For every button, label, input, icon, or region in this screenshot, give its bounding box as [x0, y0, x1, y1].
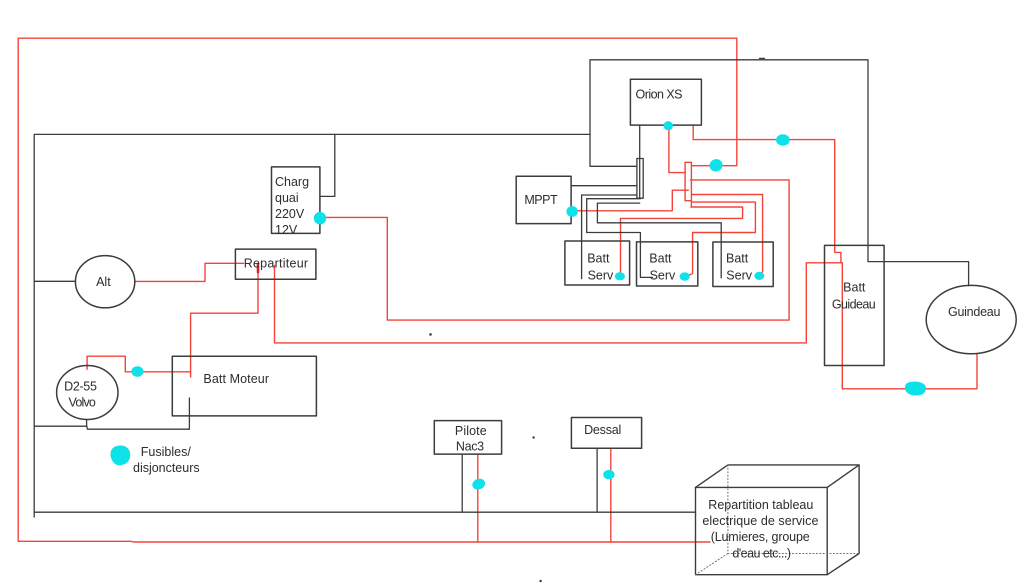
wire red ladder to Batt Serv 1	[621, 207, 743, 273]
svg-text:Fusibles/: Fusibles/	[141, 445, 192, 459]
wire red MPPT to ladder	[572, 190, 688, 211]
wire black MPPT negative	[571, 185, 637, 187]
fuse dot Pilote	[471, 477, 487, 491]
fuse dot MPPT	[566, 206, 577, 217]
wire red ladder to Batt Serv 2	[687, 202, 756, 276]
box Batt Serv 1	[565, 241, 630, 285]
wire red Dessal to bus	[610, 448, 612, 542]
stray mark 1	[429, 333, 432, 336]
box 3D Repartition tableau front face	[696, 487, 828, 574]
wire black Batt Serv 2 negative	[587, 199, 653, 278]
wire black Pilote Nac3 to bus	[461, 454, 463, 512]
wire black Batt Serv 3 negative	[597, 203, 721, 278]
wire black Orion XS negative	[639, 125, 641, 198]
box Repartiteur	[235, 249, 316, 279]
wire red Pilote Nac3 to bus	[477, 454, 479, 542]
box Charg quai	[272, 167, 320, 234]
wire black to Guindeau (top route)	[590, 60, 969, 286]
wire red D2-55 to Batt Moteur junction	[87, 356, 191, 372]
svg-text:Serv: Serv	[588, 268, 614, 282]
svg-text:D2-55: D2-55	[64, 380, 97, 394]
svg-text:Batt: Batt	[843, 281, 866, 295]
box Batt Serv 3	[713, 242, 773, 287]
svg-text:Batt: Batt	[726, 251, 749, 265]
junction tick bottom left corner	[33, 512, 35, 517]
legend fuse dot	[110, 446, 130, 466]
node black bus bar rectangle	[637, 159, 643, 199]
box 3D top and right faces	[696, 465, 860, 575]
wire red ladder to Batt Serv 3	[692, 195, 763, 275]
wire black Batt Serv 1 negative	[582, 195, 637, 279]
wire red from top frame down to ladder node	[692, 38, 737, 166]
svg-text:Serv: Serv	[650, 268, 676, 282]
wire red positive frame (left + top)	[18, 38, 737, 541]
svg-text:Repartiteur: Repartiteur	[244, 257, 308, 271]
fuse dot Batt Serv 1	[615, 272, 625, 280]
fuse dot Guindeau wire	[905, 381, 926, 395]
wire red Orion XS right terminal to Batt Guideau	[693, 125, 841, 263]
generator Alt	[75, 256, 134, 308]
svg-text:Dessal: Dessal	[584, 423, 621, 437]
svg-text:Charg: Charg	[275, 175, 309, 189]
fuse dot Batt Serv 3	[754, 272, 764, 280]
wire red Charg quai to ladder (long mid route)	[320, 180, 789, 320]
fuse dot Charg quai	[314, 212, 326, 225]
wire red Repartiteur to Batt Guideau (long bottom route)	[275, 263, 842, 343]
svg-text:Batt Moteur: Batt Moteur	[203, 372, 269, 386]
wire black Alt to frame	[34, 280, 75, 282]
svg-text:Pilote: Pilote	[455, 424, 487, 438]
svg-text:Alt: Alt	[96, 275, 111, 289]
box Pilote Nac3	[434, 421, 501, 455]
svg-text:220V: 220V	[275, 207, 305, 221]
wire red Orion XS left terminal to ladder	[669, 128, 685, 173]
svg-text:Batt: Batt	[649, 251, 672, 265]
box Batt Guideau	[825, 245, 885, 365]
fuse dot D2-55	[131, 366, 143, 377]
svg-text:Guindeau: Guindeau	[948, 305, 1000, 319]
fuse dot Orion XS	[664, 121, 673, 130]
wire red bottom positive bus	[18, 540, 710, 543]
box Batt Serv 2	[637, 242, 698, 286]
wire black Dessal to bus	[596, 448, 598, 512]
wire black D2-55 stub	[86, 420, 88, 427]
junction tick on top black wire	[760, 57, 765, 59]
svg-text:disjoncteurs: disjoncteurs	[133, 461, 200, 475]
svg-text:Guideau: Guideau	[832, 298, 876, 312]
stray mark 3	[539, 580, 541, 582]
fuse dot Dessal	[603, 470, 614, 479]
wire black Charg quai	[320, 134, 335, 196]
svg-text:Orion XS: Orion XS	[636, 88, 683, 102]
svg-text:Volvo: Volvo	[69, 396, 96, 410]
fuse dot top right wire	[776, 134, 790, 145]
box Orion XS	[630, 79, 701, 125]
wire red Repartiteur to Batt Moteur	[191, 266, 258, 377]
svg-text:electrique de service: electrique de service	[702, 514, 818, 528]
svg-text:quai: quai	[275, 191, 299, 205]
fuse dot ladder node	[708, 157, 725, 173]
arrow red head in Repartiteur	[257, 264, 260, 272]
engine D2-55 Volvo	[57, 366, 118, 420]
motor Guindeau	[926, 285, 1016, 353]
svg-text:12V: 12V	[275, 223, 298, 237]
wire red Alt to Repartiteur	[135, 263, 244, 281]
wire red Batt Guideau to Guindeau	[842, 263, 977, 389]
box Batt Moteur	[172, 356, 316, 416]
box Dessal	[571, 418, 641, 449]
svg-text:Serv: Serv	[726, 268, 752, 282]
stray mark 2	[532, 436, 534, 438]
wire black frame to Batt Moteur	[34, 398, 189, 429]
svg-text:Repartition tableau: Repartition tableau	[708, 498, 813, 512]
svg-text:Nac3: Nac3	[456, 440, 484, 454]
svg-text:(Lumieres, groupe: (Lumieres, groupe	[711, 530, 810, 544]
svg-text:Batt: Batt	[587, 251, 610, 265]
box 3D hidden edges dotted	[696, 465, 860, 575]
node red ladder bus	[685, 162, 691, 207]
svg-text:MPPT: MPPT	[524, 193, 558, 207]
box MPPT	[516, 176, 571, 223]
wire black negative frame (top + left + bottom bus)	[34, 134, 695, 512]
fuse dot Batt Serv 2	[680, 272, 690, 281]
svg-text:d'eau etc...): d'eau etc...)	[732, 547, 791, 561]
